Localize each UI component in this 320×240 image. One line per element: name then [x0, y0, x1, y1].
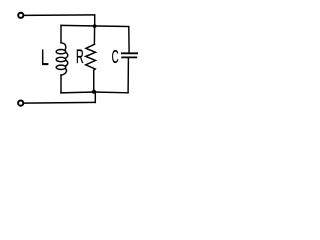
terminal top-left	[18, 13, 23, 18]
capacitor C top lead	[128, 27, 130, 53]
capacitor C bottom plate	[122, 56, 136, 58]
terminal bottom-left	[18, 101, 23, 106]
resistor R zigzag	[86, 44, 96, 70]
svg-text:C: C	[112, 48, 119, 68]
inductor L bottom lead	[60, 75, 62, 93]
wire top rail	[61, 25, 129, 26]
svg-text:R: R	[76, 47, 84, 68]
wire bottom from terminal to riser	[24, 101, 95, 104]
wire drop into top rail	[94, 15, 96, 26]
capacitor C bottom lead	[127, 58, 129, 92]
node junction dot bottom	[92, 90, 96, 94]
node junction dot top	[93, 24, 97, 28]
inductor L coil	[61, 43, 66, 51]
wire bottom rail	[61, 91, 128, 94]
capacitor C top plate	[122, 52, 137, 54]
wire top from terminal to corner	[24, 14, 95, 17]
svg-text:L: L	[41, 45, 49, 70]
resistor R bottom lead	[93, 70, 95, 92]
resistor R top lead	[93, 26, 95, 44]
inductor L top lead	[60, 25, 62, 42]
wire riser from bottom wire to bottom rail	[94, 92, 96, 102]
